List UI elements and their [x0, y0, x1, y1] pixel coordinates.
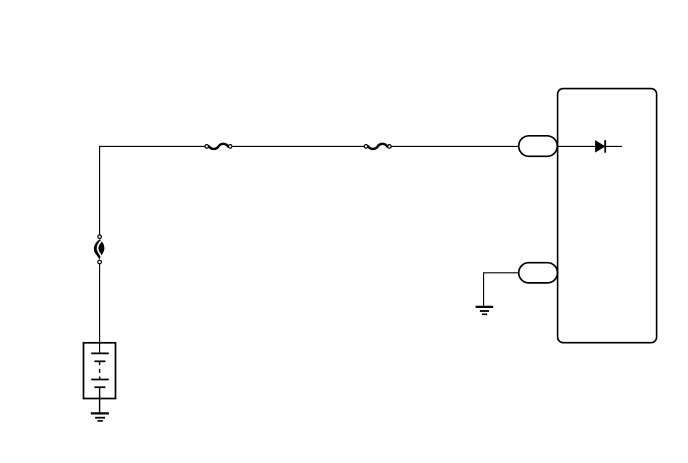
twisted-wire symbol (flex lead) [94, 235, 105, 264]
device module outline [558, 89, 657, 343]
terminal pin (input, stadium shape) [519, 136, 558, 157]
diode [595, 140, 605, 153]
wire: fuse 1 to fuse 2 [232, 145, 364, 147]
fuse 1 [205, 144, 232, 149]
wire: twist symbol down into battery [99, 264, 101, 353]
ground (battery) [91, 413, 109, 421]
ground (device) [476, 307, 494, 314]
wire: vertical from corner down to twist symbol [100, 146, 205, 234]
wire: ground terminal to ground symbol [484, 273, 519, 306]
wire: terminal to diode anode [558, 145, 596, 147]
wire: diode cathode stub [605, 145, 622, 147]
wire: battery to ground [99, 387, 101, 413]
fuse 2 [364, 144, 391, 149]
battery [84, 343, 116, 399]
wire: fuse 2 to input terminal [392, 145, 519, 147]
terminal pin (ground, stadium shape) [519, 263, 558, 283]
